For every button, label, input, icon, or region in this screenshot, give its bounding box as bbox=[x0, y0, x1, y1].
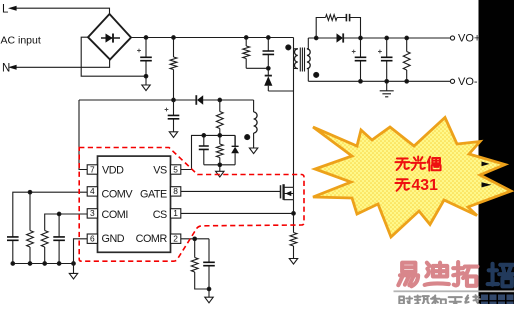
wire GND pin net bbox=[74, 239, 88, 274]
node VO- terminal bbox=[450, 79, 454, 83]
diode D3 output rectifier bbox=[337, 33, 344, 42]
svg-text:2: 2 bbox=[173, 234, 178, 244]
watermark logo text pink 拓 bbox=[453, 262, 477, 286]
wire VS box bottom bbox=[204, 165, 235, 172]
wire analog bottom rail bbox=[13, 263, 74, 265]
svg-text:COMV: COMV bbox=[102, 189, 134, 201]
pin 5 bbox=[171, 164, 181, 174]
resistor R3 snubber bbox=[326, 15, 338, 21]
svg-text:GATE: GATE bbox=[140, 189, 167, 201]
svg-text:VO+: VO+ bbox=[458, 33, 480, 45]
watermark logo text pink 迪 bbox=[425, 263, 449, 285]
svg-text:VDD: VDD bbox=[102, 164, 124, 176]
node N terminal arrow bbox=[8, 60, 110, 70]
svg-text:CS: CS bbox=[153, 209, 167, 221]
transformer T1 core bbox=[300, 48, 304, 72]
svg-text:VO-: VO- bbox=[458, 76, 478, 88]
wire primary HV rail bbox=[131, 37, 294, 39]
ground bbox=[169, 132, 177, 138]
IC U1 controller body bbox=[98, 156, 171, 252]
svg-text:7: 7 bbox=[90, 164, 95, 174]
wire COMV net bbox=[13, 192, 87, 263]
wire COMR net bbox=[181, 239, 209, 297]
svg-text:1: 1 bbox=[173, 208, 178, 218]
wire primary drain line bbox=[293, 38, 295, 188]
black notch marks on right spikes bbox=[482, 162, 490, 167]
pin 2 bbox=[171, 234, 181, 244]
svg-text:GND: GND bbox=[102, 233, 125, 245]
svg-text:N: N bbox=[2, 62, 10, 74]
diode D2 aux rectifier bbox=[196, 95, 203, 105]
svg-text:3: 3 bbox=[90, 208, 95, 218]
capacitor C10 COMR bbox=[203, 262, 215, 265]
watermark slogan gray 天 bbox=[449, 297, 462, 309]
watermark slogan gray 和 bbox=[431, 295, 446, 305]
wire VDD node bbox=[79, 100, 254, 170]
capacitor C6 output filter bbox=[381, 38, 393, 91]
capacitor C2 clamp bbox=[263, 38, 275, 76]
resistor R4 startup lower bbox=[216, 100, 223, 135]
wire bridge left arm to ground rail bbox=[81, 37, 146, 76]
wire VS riser bbox=[181, 135, 235, 169]
ground bbox=[249, 148, 257, 154]
capacitor C9 COMI bbox=[53, 237, 65, 240]
wire GATE to MOSFET bbox=[181, 190, 281, 192]
wire COMI net bbox=[45, 214, 87, 264]
svg-text:8: 8 bbox=[173, 186, 178, 196]
wire below CS resistor bbox=[293, 246, 295, 259]
svg-text:VS: VS bbox=[153, 164, 167, 176]
resistor R6 VS divider bbox=[216, 135, 223, 164]
watermark divider line bbox=[394, 290, 514, 292]
capacitor C7 VS filter bbox=[199, 135, 209, 164]
watermark logo text pink 易 bbox=[398, 263, 418, 287]
zener diode D4 VS clamp bbox=[231, 135, 239, 164]
ground bbox=[205, 297, 213, 303]
svg-text:L: L bbox=[2, 4, 9, 16]
node L terminal arrow bbox=[8, 6, 110, 14]
bridge rectifier BR1 bbox=[88, 14, 131, 60]
pin 1 bbox=[171, 208, 181, 218]
watermark slogan navy fragment rows bbox=[481, 295, 514, 305]
inductor L1 aux winding bbox=[254, 100, 258, 148]
capacitor C4 VDD bbox=[168, 100, 180, 132]
resistor R9 current sense bbox=[290, 233, 297, 247]
capacitor C3 snubber bbox=[346, 14, 349, 22]
resistor R5 output preload bbox=[403, 38, 410, 81]
svg-text:4: 4 bbox=[90, 186, 95, 196]
svg-text:COMR: COMR bbox=[136, 233, 168, 245]
transformer T1 secondary phase dot bbox=[314, 72, 319, 77]
ground bbox=[142, 85, 150, 91]
transistor Q1 MOSFET bbox=[281, 184, 294, 200]
diode D1 clamp blocking bbox=[264, 76, 293, 91]
pin 4 bbox=[87, 186, 97, 196]
resistor R10 COMR bbox=[191, 258, 198, 273]
pin 7 bbox=[87, 164, 97, 174]
svg-text:COMI: COMI bbox=[102, 209, 128, 221]
svg-text:5: 5 bbox=[173, 164, 178, 174]
capacitor C8 COMV bbox=[7, 237, 19, 240]
red dashed primary-side highlight boundary bbox=[79, 148, 304, 262]
snubber network wires bbox=[316, 18, 360, 39]
transformer T1 primary winding bbox=[294, 49, 298, 69]
watermark slogan gray 射 bbox=[399, 296, 413, 307]
pin 3 bbox=[87, 208, 97, 218]
node VO+ terminal bbox=[450, 36, 454, 40]
aux winding phase dot bbox=[245, 135, 250, 140]
svg-text:6: 6 bbox=[90, 234, 95, 244]
resistor R1 startup upper bbox=[170, 38, 177, 101]
resistor R8 COMI bbox=[41, 231, 48, 248]
svg-text:431: 431 bbox=[412, 177, 439, 194]
watermark logo text navy 培 bbox=[488, 264, 514, 287]
resistor R2 clamp bbox=[243, 38, 268, 69]
pin 6 bbox=[87, 234, 97, 244]
wire CS net bbox=[181, 200, 294, 233]
earth ground output bbox=[380, 91, 394, 97]
svg-text:AC input: AC input bbox=[1, 35, 41, 47]
starburst callout bbox=[313, 118, 511, 238]
text 无431 bbox=[395, 179, 409, 190]
text 无光偶 bbox=[395, 158, 409, 169]
capacitor C5 output bulk bbox=[355, 38, 367, 81]
black sidebar panel bbox=[479, 0, 514, 304]
ground bbox=[216, 171, 224, 177]
wire secondary output rail top bbox=[308, 37, 450, 39]
transformer T1 primary phase dot bbox=[286, 45, 291, 50]
watermark slogan gray 线 bbox=[465, 295, 480, 305]
pin 8 bbox=[171, 186, 181, 196]
ground bbox=[289, 259, 297, 265]
resistor R7 COMV bbox=[27, 231, 34, 248]
capacitor C1 bulk input bbox=[140, 38, 152, 86]
transformer T1 secondary winding bbox=[307, 38, 310, 81]
IC U1 pin labels bbox=[102, 164, 168, 245]
watermark slogan gray 频 bbox=[415, 295, 430, 305]
wire secondary return rail bbox=[308, 80, 450, 82]
ground bbox=[69, 273, 77, 279]
